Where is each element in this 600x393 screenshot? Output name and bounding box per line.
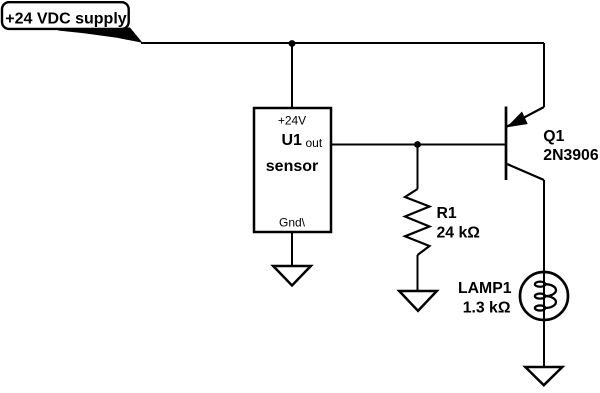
svg-text:24 kΩ: 24 kΩ	[437, 224, 481, 241]
svg-text:Q1: Q1	[543, 128, 564, 145]
svg-text:Gnd\: Gnd\	[279, 216, 306, 230]
svg-text:+24V: +24V	[278, 114, 306, 128]
svg-text:+24 VDC supply: +24 VDC supply	[5, 11, 126, 28]
svg-text:R1: R1	[437, 205, 457, 222]
svg-text:2N3906: 2N3906	[543, 147, 599, 164]
svg-text:1.3 kΩ: 1.3 kΩ	[463, 299, 511, 316]
svg-text:sensor: sensor	[266, 158, 318, 175]
svg-text:out: out	[306, 136, 323, 150]
svg-text:U1: U1	[282, 132, 303, 149]
svg-text:LAMP1: LAMP1	[458, 280, 512, 297]
